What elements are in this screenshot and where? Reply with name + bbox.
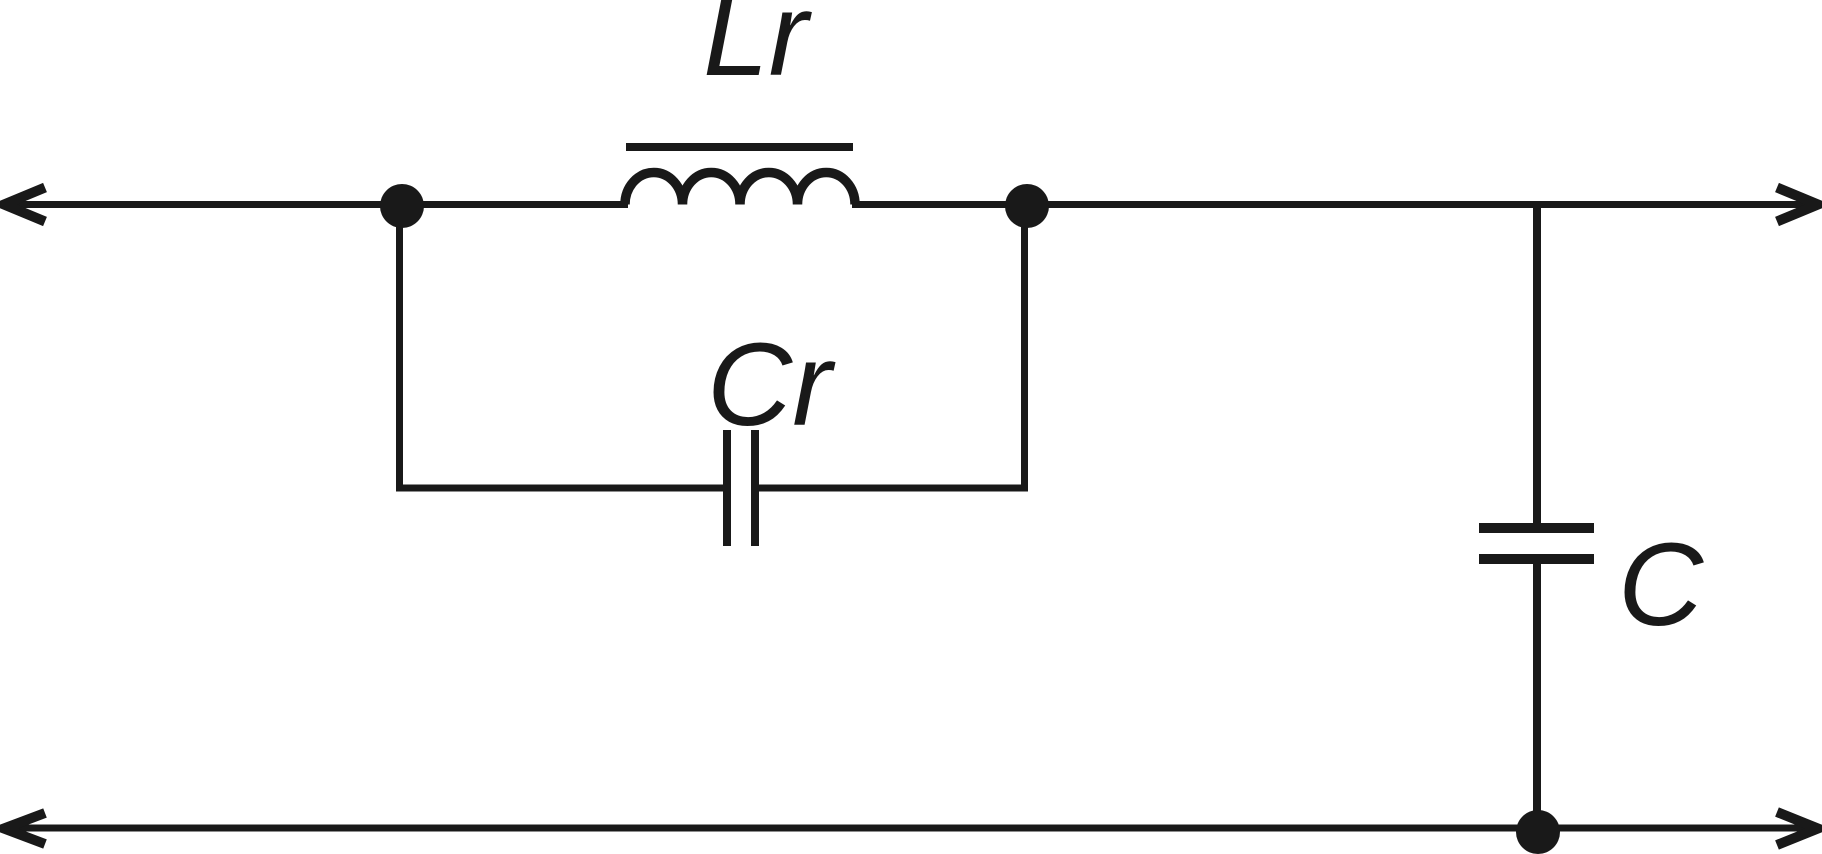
arrowhead: top-left: [4, 188, 45, 222]
wire: left branch vertical (to Cr loop): [396, 206, 403, 492]
arrowhead: top-right: [1777, 188, 1818, 222]
arrowhead: bottom-right: [1777, 812, 1818, 845]
wire: top rail right segment: [852, 201, 1818, 208]
capacitor C top plate: [1479, 523, 1594, 533]
arrowhead: bottom-left: [4, 813, 45, 844]
svg-text:C: C: [1618, 519, 1704, 651]
wire: bottom rail: [3, 825, 1818, 832]
wire: C branch top vertical: [1533, 205, 1541, 529]
node: bottom junction: [1516, 810, 1560, 854]
wire: Cr bottom horizontal, left of plates: [396, 485, 723, 492]
capacitor Cr right plate: [751, 430, 759, 546]
wire: Cr bottom horizontal, right of plates: [755, 485, 1028, 492]
wire: right branch vertical (to Cr loop): [1021, 206, 1028, 492]
wire: C branch bottom vertical: [1533, 559, 1541, 833]
svg-text:Cr: Cr: [707, 319, 836, 451]
inductor Lr core bar: [626, 143, 853, 151]
inductor Lr coil: [625, 173, 855, 205]
wire: top rail left segment: [3, 201, 628, 208]
node: top-right junction: [1005, 184, 1049, 228]
node: top-left junction: [380, 184, 424, 228]
capacitor C bottom plate: [1479, 554, 1594, 564]
svg-text:Lr: Lr: [703, 0, 813, 101]
capacitor Cr left plate: [723, 430, 731, 546]
